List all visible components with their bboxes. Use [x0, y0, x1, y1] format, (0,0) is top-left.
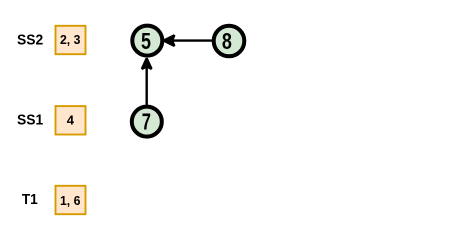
wire arrow 7 to 5 (vertical)	[142, 58, 152, 106]
node 8	[214, 26, 245, 57]
node 5	[132, 26, 162, 56]
wire arrow 8 to 5 (horizontal)	[164, 35, 213, 46]
svg-text:SS2: SS2	[17, 32, 43, 49]
svg-text:4: 4	[67, 113, 75, 128]
box SS1 value 4	[56, 106, 86, 134]
svg-text:7: 7	[142, 109, 151, 135]
svg-text:5: 5	[141, 28, 151, 54]
box T1 values 1,6	[56, 186, 86, 214]
box SS2 values 2,3	[56, 26, 86, 54]
svg-text:8: 8	[222, 28, 232, 54]
node 7	[132, 107, 162, 137]
svg-text:1, 6: 1, 6	[60, 193, 80, 208]
svg-text:T1: T1	[22, 191, 38, 208]
svg-text:2, 3: 2, 3	[60, 32, 80, 47]
svg-text:SS1: SS1	[17, 112, 43, 129]
